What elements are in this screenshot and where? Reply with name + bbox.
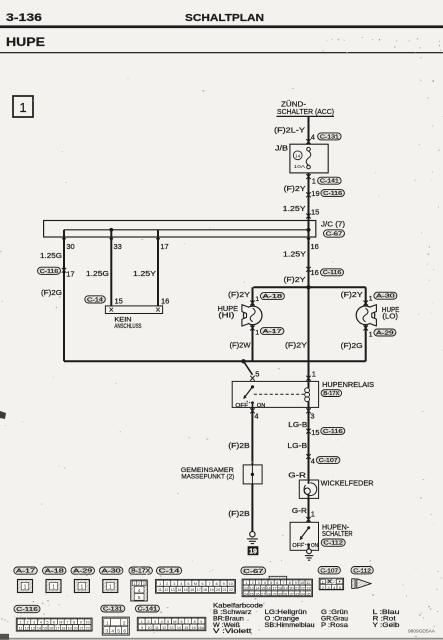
svg-text:1.25Y: 1.25Y <box>283 204 306 213</box>
connector mark C-131 pin 4 <box>306 139 310 144</box>
svg-text:2: 2 <box>123 621 126 626</box>
wire through ground point box <box>251 465 253 484</box>
connector mark C-116 pin 19 <box>306 192 310 197</box>
svg-text:8: 8 <box>216 582 218 586</box>
svg-text:9: 9 <box>200 620 202 624</box>
wire main trunk to relay coil <box>308 287 310 381</box>
wire HUPE LO feed <box>365 287 367 306</box>
svg-text:10: 10 <box>147 626 151 630</box>
svg-text:10A: 10A <box>294 164 306 170</box>
wire HUPE LO down <box>365 325 367 362</box>
svg-text:1: 1 <box>369 332 373 339</box>
svg-text:12: 12 <box>244 586 248 590</box>
pin 16 exit arrow <box>306 238 310 242</box>
svg-text:9: 9 <box>80 621 82 625</box>
svg-text:C-116: C-116 <box>323 429 343 435</box>
relay coil <box>305 388 310 393</box>
svg-text:SCHALTER (ACC): SCHALTER (ACC) <box>277 109 334 116</box>
wire clock spring to horn switch <box>308 498 310 522</box>
svg-text:26: 26 <box>255 592 259 596</box>
svg-text:(F)2B: (F)2B <box>228 441 250 450</box>
svg-text:A-17: A-17 <box>16 569 35 575</box>
svg-text:3: 3 <box>33 621 35 625</box>
relay contact blade <box>245 387 253 397</box>
svg-text:34: 34 <box>301 592 305 596</box>
node horn branch junction <box>306 285 310 289</box>
wire main trunk J/C to horn branch <box>308 237 310 287</box>
svg-text:4: 4 <box>138 588 141 593</box>
connector mark A-29 pin 1 <box>364 326 368 331</box>
svg-text:4: 4 <box>311 132 315 141</box>
svg-text:33: 33 <box>295 592 299 596</box>
svg-text:18: 18 <box>278 586 282 590</box>
connector A-30 <box>374 292 397 299</box>
svg-text:C-116: C-116 <box>40 269 59 275</box>
connector A-18 <box>260 293 284 300</box>
wire pin 33 drop <box>110 230 112 307</box>
svg-text:4: 4 <box>161 620 163 624</box>
svg-text:ANSCHLUSS: ANSCHLUSS <box>114 323 141 330</box>
svg-text:2: 2 <box>252 581 254 585</box>
svg-text:SCHALTPLAN: SCHALTPLAN <box>185 13 264 24</box>
svg-text:1: 1 <box>369 295 373 302</box>
svg-text:17: 17 <box>160 242 168 251</box>
svg-text:10: 10 <box>229 582 233 586</box>
horn switch blade <box>301 528 309 538</box>
svg-text:21: 21 <box>222 588 226 592</box>
svg-text:WICKELFEDER: WICKELFEDER <box>321 481 374 488</box>
wire horn return horizontal <box>64 360 366 362</box>
svg-text:C-116: C-116 <box>16 607 38 613</box>
connector legend A-18 <box>43 567 67 574</box>
svg-text:16: 16 <box>311 242 319 251</box>
svg-text:27: 27 <box>261 592 265 596</box>
svg-text:11: 11 <box>19 626 23 630</box>
svg-text:9: 9 <box>223 582 225 586</box>
svg-text:5: 5 <box>187 582 189 586</box>
svg-text:HUPE: HUPE <box>6 37 45 49</box>
svg-text:A-18: A-18 <box>263 294 283 300</box>
svg-text:14: 14 <box>37 626 41 630</box>
svg-text:C-112: C-112 <box>353 568 371 574</box>
svg-text:A-30: A-30 <box>102 569 121 575</box>
thick header rule <box>0 25 443 28</box>
svg-text:(HI): (HI) <box>218 313 234 320</box>
wire J/B to joint connector <box>308 173 310 221</box>
horn HUPE (LO) symbol <box>356 306 375 325</box>
svg-text:6: 6 <box>53 621 55 625</box>
svg-text:G-R: G-R <box>288 471 306 480</box>
svg-text:ZÜND-: ZÜND- <box>281 101 307 109</box>
clock spring WICKELFEDER box <box>299 480 318 498</box>
relay HUPENRELAIS box <box>232 381 318 407</box>
svg-text:(F)2G: (F)2G <box>341 341 363 350</box>
svg-text:GR:Grau: GR:Grau <box>321 616 348 622</box>
ground reference 19 <box>248 546 259 555</box>
svg-text:4: 4 <box>311 456 315 465</box>
svg-text:5: 5 <box>138 595 141 600</box>
connector mark relay pin 5 <box>250 376 254 381</box>
svg-text:17: 17 <box>66 269 74 278</box>
ground symbol left <box>250 532 255 537</box>
svg-text:5: 5 <box>117 628 120 633</box>
svg-text:(F)2Y: (F)2Y <box>341 290 363 299</box>
svg-text:5: 5 <box>46 621 48 625</box>
svg-text:16: 16 <box>311 268 319 277</box>
svg-text:13: 13 <box>250 586 254 590</box>
connector mark A-17 pin 1 <box>250 326 254 331</box>
svg-text:20: 20 <box>216 588 220 592</box>
svg-text:LG-B: LG-B <box>288 420 307 429</box>
svg-text:(F)2Y: (F)2Y <box>228 290 250 299</box>
svg-text:3-136: 3-136 <box>6 12 42 24</box>
svg-text:(F)2Y: (F)2Y <box>284 275 306 284</box>
svg-text:1: 1 <box>106 621 109 626</box>
ground symbol right <box>307 549 312 554</box>
svg-text:(F)2W: (F)2W <box>230 341 252 350</box>
svg-text:7: 7 <box>282 581 284 585</box>
svg-text:8: 8 <box>73 621 75 625</box>
svg-text:5: 5 <box>339 586 341 590</box>
connector C-116 mid <box>321 269 344 276</box>
connector mark relay pin 4 <box>250 408 254 413</box>
svg-text:C-141: C-141 <box>320 179 339 185</box>
svg-text:G-R: G-R <box>292 506 308 515</box>
svg-text:14: 14 <box>177 626 181 630</box>
wire HUPE HI to relay <box>252 325 254 362</box>
svg-text:22: 22 <box>229 588 233 592</box>
svg-text:P :Rosa: P :Rosa <box>321 623 349 629</box>
svg-text:1: 1 <box>245 581 247 585</box>
svg-text:9: 9 <box>141 626 143 630</box>
svg-text:Kabelfarbcode: Kabelfarbcode <box>213 604 264 610</box>
svg-text:6: 6 <box>201 582 203 586</box>
connector legend A-30 <box>99 567 123 574</box>
thin rule under HUPE <box>0 52 443 53</box>
connector legend A-29 <box>71 567 95 574</box>
connector legend C-107 <box>318 567 340 574</box>
wire horn branch horizontal <box>253 286 365 288</box>
svg-text:17: 17 <box>55 626 59 630</box>
dead end mark pin 16 <box>156 308 160 312</box>
junction dot pin 33 tap <box>109 228 113 232</box>
wire relay ON contact to pin 4 <box>252 403 254 408</box>
wire ground point to chassis ground <box>251 484 253 532</box>
connector A-17 <box>260 328 284 335</box>
junction dot main tap <box>306 228 310 232</box>
svg-text:1: 1 <box>81 585 84 591</box>
connector legend C-14 <box>156 567 181 574</box>
svg-text:18: 18 <box>61 626 65 630</box>
svg-text:1: 1 <box>19 100 26 115</box>
svg-text:21: 21 <box>80 626 84 630</box>
svg-text:OFF: OFF <box>292 543 304 549</box>
relay actuating dashed link <box>254 393 304 395</box>
svg-text:22: 22 <box>86 626 90 630</box>
connector B-17X <box>321 390 342 397</box>
horn switch HUPEN-SCHALTER box <box>290 522 318 550</box>
svg-text:C-14: C-14 <box>87 297 104 303</box>
svg-text:30: 30 <box>278 592 282 596</box>
junction block J/B box <box>290 144 328 173</box>
connector mark C-116 pin 16 <box>306 267 310 272</box>
svg-text:2: 2 <box>26 621 28 625</box>
wire relay pin 1 to coil <box>308 381 310 388</box>
svg-text:4: 4 <box>264 581 266 585</box>
svg-text:16: 16 <box>267 586 271 590</box>
svg-text:31: 31 <box>284 592 288 596</box>
wire diagonal to relay pin 5 <box>244 361 253 375</box>
connector C-107 <box>316 457 340 464</box>
svg-text:(F)2Y: (F)2Y <box>284 184 306 193</box>
svg-text:12: 12 <box>162 626 166 630</box>
svg-text:11: 11 <box>306 581 310 585</box>
connector mark C-116 pin 15 <box>306 429 310 434</box>
connector C-14 <box>85 296 106 303</box>
svg-text:Y :Gelb: Y :Gelb <box>373 623 401 629</box>
connector C-116 lower <box>321 427 345 434</box>
svg-text:1: 1 <box>52 585 55 591</box>
connector mark relay pin 3 <box>306 408 310 413</box>
svg-text:9: 9 <box>295 581 297 585</box>
scan mark left margin <box>0 411 6 419</box>
svg-text:4: 4 <box>180 582 182 586</box>
connector mark C-107 pin 4 <box>306 454 310 459</box>
svg-text:2: 2 <box>166 582 168 586</box>
svg-text:3: 3 <box>258 581 260 585</box>
svg-text:C-107: C-107 <box>319 458 338 464</box>
connector mark relay pin 1 <box>306 376 310 381</box>
svg-text:19: 19 <box>249 549 257 556</box>
svg-text:5: 5 <box>167 620 169 624</box>
svg-text:35: 35 <box>306 592 310 596</box>
dead end mark pin 15 <box>110 308 114 312</box>
svg-text:ON: ON <box>311 543 318 549</box>
pin 30 exit arrow <box>62 238 66 242</box>
svg-text:19: 19 <box>67 626 71 630</box>
svg-text:G :Grün: G :Grün <box>321 610 348 616</box>
svg-text:16: 16 <box>192 626 196 630</box>
connector mark C-116 pin 17 <box>62 268 66 273</box>
svg-text:(F)2L-Y: (F)2L-Y <box>274 126 305 135</box>
svg-text:J/B: J/B <box>275 145 288 152</box>
svg-text:1: 1 <box>141 620 143 624</box>
connector legend A-17 <box>14 567 38 574</box>
svg-text:2: 2 <box>138 582 140 586</box>
svg-text:16A: 16A <box>198 626 205 630</box>
svg-text:C-131: C-131 <box>320 134 339 140</box>
ground point junction dot <box>251 473 254 476</box>
svg-text:W :Weiß: W :Weiß <box>213 623 240 629</box>
pin 33 exit arrow <box>109 238 113 242</box>
svg-text:4: 4 <box>254 412 258 421</box>
svg-text:M: M <box>59 621 62 625</box>
svg-text:15: 15 <box>311 428 319 437</box>
svg-text:15: 15 <box>311 207 319 216</box>
wire main through J/C box <box>308 221 310 237</box>
connector mark joint connector pin 15 <box>306 214 310 219</box>
svg-text:22: 22 <box>301 586 305 590</box>
svg-text:20: 20 <box>289 586 293 590</box>
svg-text:15: 15 <box>184 626 188 630</box>
svg-text:17: 17 <box>197 588 201 592</box>
svg-text:25: 25 <box>250 592 254 596</box>
svg-text:1: 1 <box>255 296 259 303</box>
svg-text:J/C (7): J/C (7) <box>321 222 345 229</box>
connector legend C-116 <box>14 605 40 612</box>
svg-text:(LO): (LO) <box>382 314 398 321</box>
connector legend C-67 <box>241 567 266 574</box>
svg-text:C-141: C-141 <box>138 606 158 612</box>
svg-text:1: 1 <box>24 585 27 591</box>
svg-text:8: 8 <box>289 581 291 585</box>
svg-text:8: 8 <box>194 620 196 624</box>
connector C-141 <box>318 177 342 184</box>
svg-text:13: 13 <box>171 588 175 592</box>
connector legend C-141 <box>135 605 159 612</box>
no-connection box KEIN ANSCHLUSS <box>105 306 162 314</box>
svg-text:B-17X: B-17X <box>323 391 339 397</box>
connector legend C-131 <box>101 605 125 612</box>
svg-text:10: 10 <box>86 621 90 625</box>
svg-text:(F)2Y: (F)2Y <box>285 341 307 350</box>
svg-text:15: 15 <box>184 588 188 592</box>
wire horn switch to ground <box>308 545 310 549</box>
svg-text:16: 16 <box>190 588 194 592</box>
svg-text:3: 3 <box>154 620 156 624</box>
connector mark A-18 pin 1 <box>250 301 254 306</box>
svg-text:30: 30 <box>66 242 74 251</box>
svg-text:14: 14 <box>177 588 181 592</box>
joint connector bus bar <box>64 229 309 231</box>
svg-text:7: 7 <box>208 582 210 586</box>
svg-text:7: 7 <box>187 620 189 624</box>
wire relay pin 4 to ground point <box>251 407 253 465</box>
svg-text:SCHALTER: SCHALTER <box>322 531 353 538</box>
svg-text:4: 4 <box>40 621 42 625</box>
wire HUPE HI feed <box>252 287 254 306</box>
svg-text:A-17: A-17 <box>263 329 282 335</box>
svg-text:20: 20 <box>74 626 78 630</box>
svg-text:L :Blau: L :Blau <box>373 610 400 616</box>
svg-text:11: 11 <box>158 588 162 592</box>
svg-text:HUPENRELAIS: HUPENRELAIS <box>322 382 374 389</box>
svg-text:LG:Hellgrün: LG:Hellgrün <box>265 610 307 616</box>
svg-text:3: 3 <box>106 628 109 633</box>
connector C-112 <box>321 539 345 546</box>
svg-text:C-67: C-67 <box>243 569 263 575</box>
svg-text:15: 15 <box>115 296 123 305</box>
svg-text:C-112: C-112 <box>323 541 343 547</box>
horn switch common terminal <box>307 526 310 529</box>
svg-text:C-116: C-116 <box>323 270 342 276</box>
fuse number 14 circle <box>293 151 302 160</box>
svg-text:12: 12 <box>25 626 29 630</box>
connector legend C-112 <box>351 567 373 574</box>
svg-text:4: 4 <box>111 628 114 633</box>
svg-text:14: 14 <box>255 586 259 590</box>
svg-text:16: 16 <box>49 626 53 630</box>
svg-text:13: 13 <box>31 626 35 630</box>
svg-text:1: 1 <box>159 582 161 586</box>
svg-text:1: 1 <box>322 580 324 584</box>
svg-text:ON: ON <box>257 403 266 409</box>
svg-text:1: 1 <box>20 621 22 625</box>
svg-text:V :Violett: V :Violett <box>213 629 252 635</box>
connector C-67 <box>324 230 345 237</box>
svg-text:OFF: OFF <box>235 403 249 409</box>
svg-text:5: 5 <box>270 581 272 585</box>
svg-text:M: M <box>173 620 176 624</box>
svg-text:A-18: A-18 <box>45 569 64 575</box>
svg-text:C-131: C-131 <box>103 606 123 612</box>
svg-text:1: 1 <box>312 176 316 185</box>
svg-text:(F)2G: (F)2G <box>41 288 62 297</box>
svg-text:6: 6 <box>123 628 126 633</box>
connector mark A-30 pin 1 <box>364 301 368 306</box>
connector legend B-17X <box>129 567 153 574</box>
svg-text:7: 7 <box>66 621 68 625</box>
svg-text:M: M <box>194 582 197 586</box>
horn switch throw dashed arc <box>303 543 308 545</box>
svg-text:A-29: A-29 <box>73 569 92 575</box>
svg-text:29: 29 <box>272 592 276 596</box>
node junction to relay pin 5 <box>241 359 245 363</box>
svg-text:3: 3 <box>328 586 330 590</box>
svg-text:1: 1 <box>312 369 316 378</box>
relay contact common terminal <box>251 385 254 388</box>
svg-text:12: 12 <box>164 588 168 592</box>
svg-text:6: 6 <box>180 620 182 624</box>
svg-text:28: 28 <box>267 592 271 596</box>
svg-text:4: 4 <box>333 586 335 590</box>
svg-text:2: 2 <box>147 620 149 624</box>
svg-text:17: 17 <box>272 586 276 590</box>
svg-text:19: 19 <box>284 586 288 590</box>
svg-text:C-107: C-107 <box>320 568 338 574</box>
svg-text:24: 24 <box>244 592 248 596</box>
svg-text:C-116: C-116 <box>323 191 342 197</box>
svg-text:C-67: C-67 <box>326 232 343 238</box>
svg-text:3: 3 <box>173 582 175 586</box>
svg-text:23: 23 <box>306 586 310 590</box>
svg-text:LG-B: LG-B <box>287 441 307 450</box>
svg-text:33: 33 <box>114 242 122 251</box>
svg-text:MASSEPUNKT (2): MASSEPUNKT (2) <box>181 473 234 480</box>
fuse 14 element <box>307 147 311 151</box>
svg-text:3: 3 <box>310 412 314 421</box>
svg-text:19: 19 <box>311 189 319 198</box>
svg-text:15: 15 <box>43 626 47 630</box>
svg-text:9809GD5AA: 9809GD5AA <box>408 628 436 634</box>
svg-text:R :Rot: R :Rot <box>373 616 397 622</box>
svg-text:1.25Y: 1.25Y <box>283 249 306 258</box>
svg-text:SB:Himmelblau: SB:Himmelblau <box>265 623 315 629</box>
svg-text:19: 19 <box>210 588 214 592</box>
svg-text:1.25G: 1.25G <box>40 251 62 260</box>
svg-text:O :Orange: O :Orange <box>265 616 300 622</box>
connector C-116 left <box>38 267 61 274</box>
svg-text:1: 1 <box>109 585 112 591</box>
svg-text:A-29: A-29 <box>376 330 394 336</box>
svg-text:B-17X: B-17X <box>131 569 151 575</box>
horn HUPE (HI) symbol <box>243 306 262 325</box>
svg-text:21: 21 <box>295 586 299 590</box>
relay ON contact <box>251 401 254 404</box>
svg-text:1: 1 <box>134 582 136 586</box>
wire ignition feed down to J/B <box>308 116 310 144</box>
scan edge line bottom <box>0 638 443 640</box>
